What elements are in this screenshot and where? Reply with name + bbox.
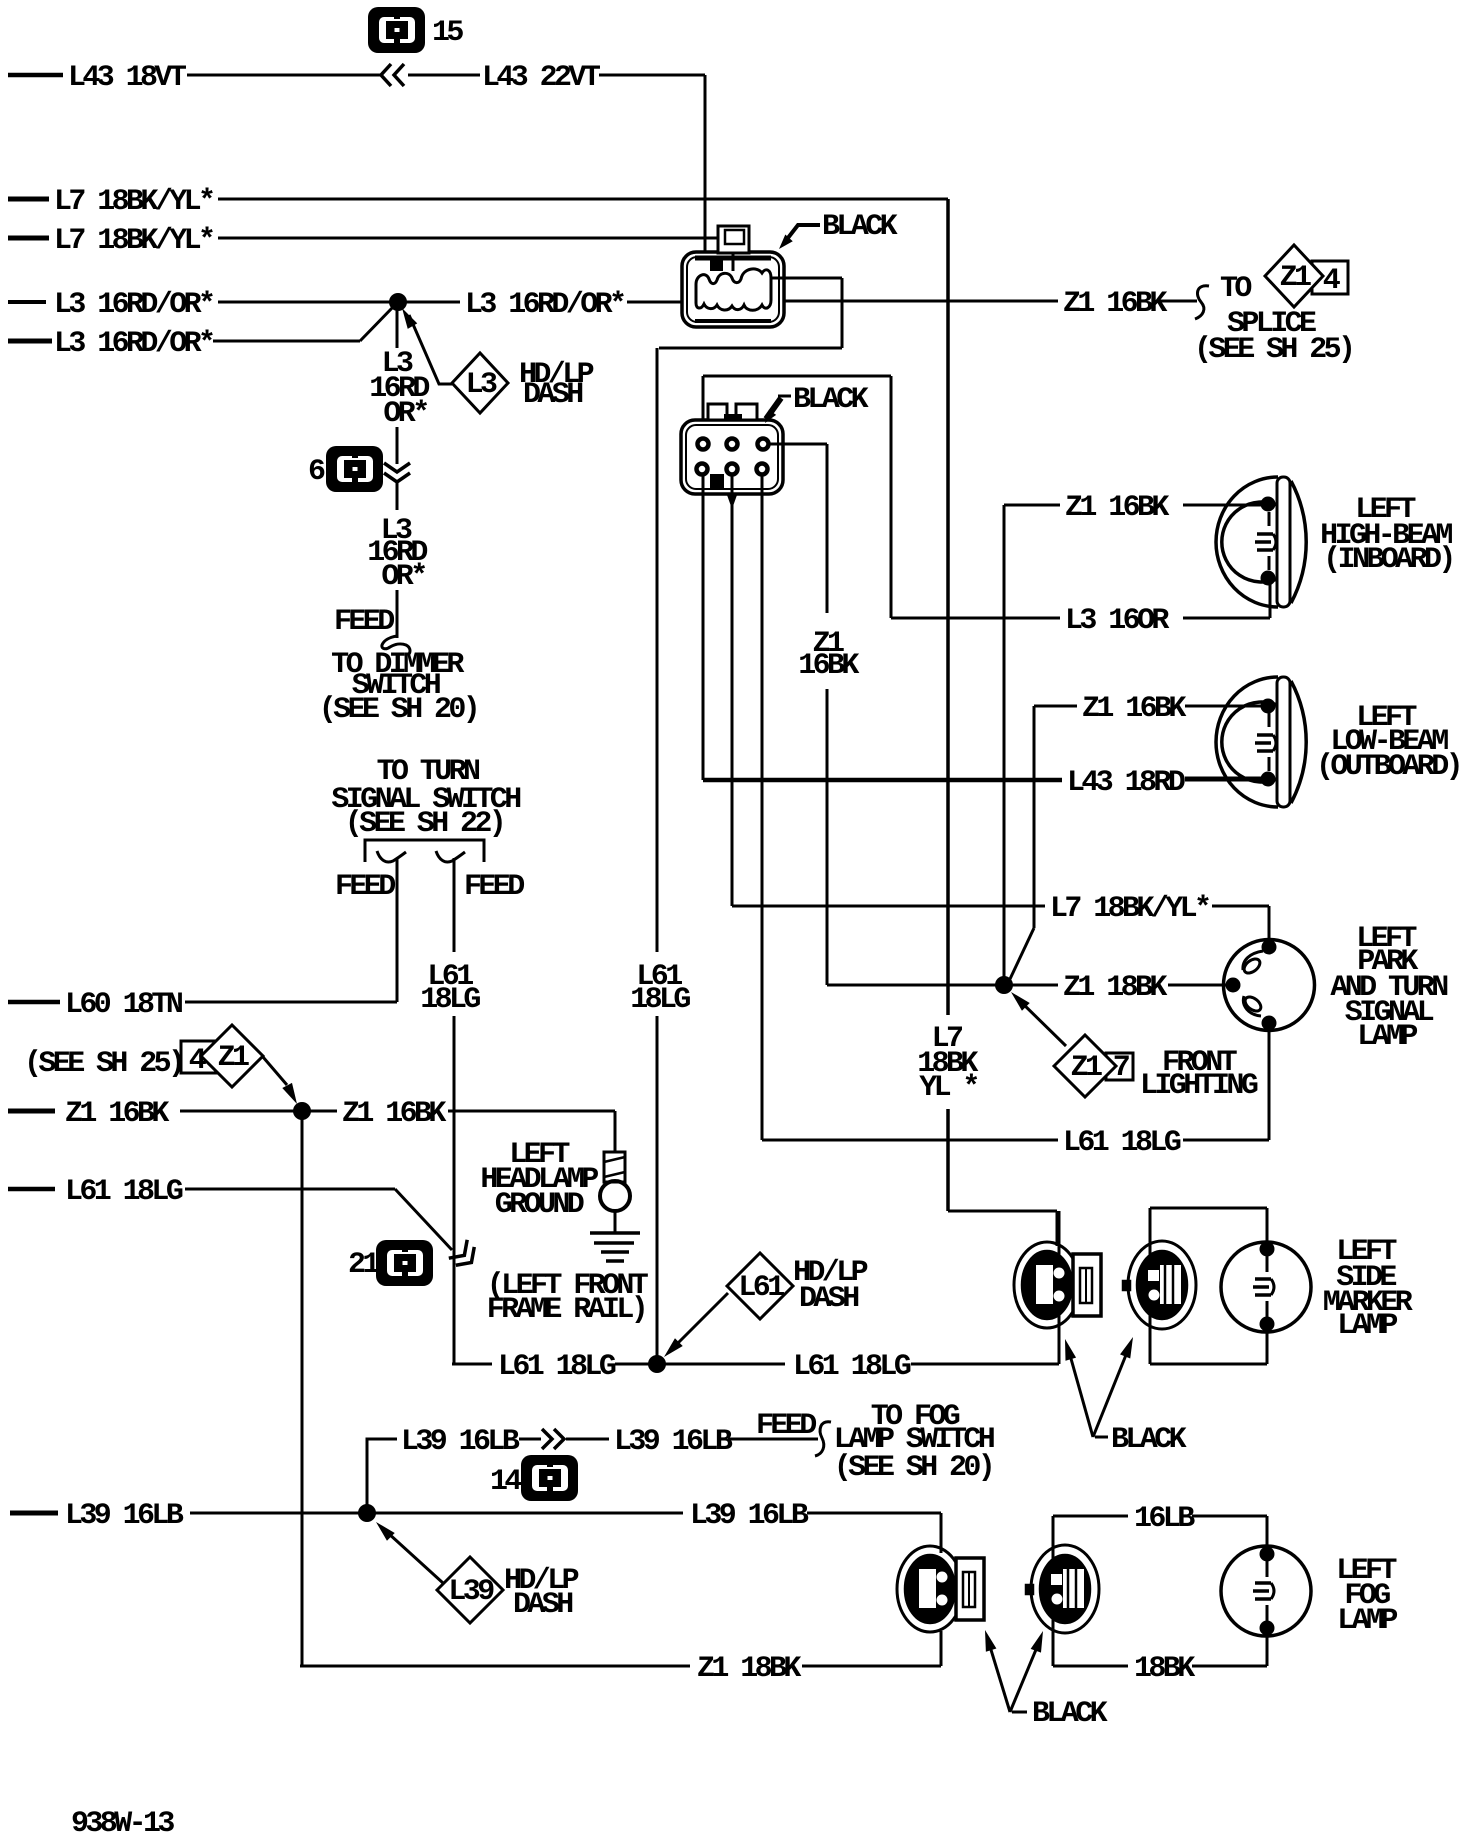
node Z1 splice xyxy=(293,1102,311,1120)
svg-text:L39 16LB: L39 16LB xyxy=(65,1499,184,1533)
wire diagonal into L3 splice xyxy=(360,306,394,341)
wire L61 18LG long vertical xyxy=(656,348,659,952)
wire L39 16LB main row xyxy=(10,1511,58,1516)
svg-text:BLACK: BLACK xyxy=(1111,1423,1187,1457)
grommet 15 xyxy=(368,7,425,53)
bracket squiggle xyxy=(1195,286,1209,319)
bulb left fog xyxy=(1221,1546,1311,1636)
lamp left high beam xyxy=(1216,477,1278,607)
connector symbol L3 HD/LP DASH xyxy=(452,353,508,413)
wire Z1 16BK from C2 pin3 xyxy=(768,443,827,446)
svg-text:BLACK: BLACK xyxy=(793,383,869,417)
svg-text:L39 16LB: L39 16LB xyxy=(401,1425,520,1459)
wire Z1 18BK to park lamp xyxy=(1012,984,1058,987)
label L3 16RD OR* below splice xyxy=(396,309,399,348)
svg-text:L3 16RD/OR*: L3 16RD/OR* xyxy=(54,288,213,322)
svg-text:DASH: DASH xyxy=(513,1588,572,1622)
wire L60 feed xyxy=(396,858,399,1002)
svg-text:14: 14 xyxy=(490,1465,522,1499)
svg-text:L39 16LB: L39 16LB xyxy=(614,1425,733,1459)
node L39 splice xyxy=(358,1504,376,1522)
svg-text:(SEE SH 25): (SEE SH 25) xyxy=(24,1047,182,1081)
svg-text:GROUND: GROUND xyxy=(495,1188,584,1222)
svg-text:OR*: OR* xyxy=(381,560,425,594)
wire L43 18VT xyxy=(8,73,63,78)
bracket squiggle fog xyxy=(815,1422,831,1456)
svg-text:L3 16OR: L3 16OR xyxy=(1065,604,1169,638)
wire diagonal to grommet 21 xyxy=(395,1189,452,1250)
arrow from L61 diamond to splice xyxy=(676,1293,728,1345)
svg-text:OR*: OR* xyxy=(383,397,427,431)
svg-text:TO: TO xyxy=(1220,272,1251,306)
arrow from L3 diamond to splice xyxy=(409,315,452,384)
wire Z1 16BK to low beam xyxy=(1033,706,1036,928)
wire L7 to side marker xyxy=(948,1210,1057,1213)
svg-text:Z1 16BK: Z1 16BK xyxy=(1065,491,1169,525)
svg-text:FEED: FEED xyxy=(335,870,395,904)
svg-text:L43 18VT: L43 18VT xyxy=(68,61,187,95)
svg-text:L43 22VT: L43 22VT xyxy=(482,61,601,95)
svg-text:Z1 16BK: Z1 16BK xyxy=(1063,287,1167,321)
connector arrow chevrons xyxy=(381,64,391,86)
svg-text:DASH: DASH xyxy=(799,1282,858,1316)
wire L3 down to grommet xyxy=(396,427,399,464)
arrow from Z1 diamond to splice xyxy=(263,1057,287,1085)
svg-text:(SEE SH 25): (SEE SH 25) xyxy=(1194,333,1352,367)
svg-text:Z1 16BK: Z1 16BK xyxy=(65,1097,169,1131)
svg-text:18LG: 18LG xyxy=(420,983,480,1017)
svg-text:(SEE SH 22): (SEE SH 22) xyxy=(345,807,503,841)
wire from C1 to L61 drop xyxy=(770,277,842,280)
svg-text:L61: L61 xyxy=(738,1271,784,1305)
svg-text:Z1: Z1 xyxy=(1280,261,1311,295)
wire L3 16RD/OR* row 1 xyxy=(8,300,46,304)
feed hook right xyxy=(436,851,465,862)
wire L61 18LG row xyxy=(8,1187,55,1192)
connector symbol Z1 7 FRONT LIGHTING xyxy=(1106,1053,1133,1080)
wire pin1 to high beam box xyxy=(702,376,705,438)
break chevron at grommet 21 xyxy=(449,1240,481,1272)
wire Z1 16BK to high beam xyxy=(1003,505,1006,977)
connector fog left xyxy=(897,1546,963,1632)
wire L3 16OR to high beam xyxy=(891,617,1060,620)
svg-text:16BK: 16BK xyxy=(798,649,859,683)
bracket to turn signal switch xyxy=(365,840,484,862)
svg-text:Z1: Z1 xyxy=(218,1041,249,1075)
svg-text:FRAME RAIL): FRAME RAIL) xyxy=(487,1293,645,1327)
node L3 splice xyxy=(389,293,407,311)
svg-text:L61 18LG: L61 18LG xyxy=(65,1175,183,1209)
lamp left fog box xyxy=(1053,1515,1128,1518)
wire L60 18TN xyxy=(8,1000,60,1005)
svg-text:18BK: 18BK xyxy=(1134,1652,1195,1686)
feed hook left xyxy=(377,851,406,862)
svg-text:LAMP: LAMP xyxy=(1337,1604,1397,1638)
C1 top tab xyxy=(718,226,749,253)
connector symbol L39 HD/LP DASH xyxy=(437,1557,503,1623)
lamp left park and turn signal xyxy=(1224,940,1315,1031)
node Z1 splice at front lighting xyxy=(995,976,1013,994)
svg-text:LIGHTING: LIGHTING xyxy=(1140,1069,1258,1103)
svg-text:(SEE SH 20): (SEE SH 20) xyxy=(834,1451,992,1485)
svg-text:Z1: Z1 xyxy=(1071,1051,1102,1085)
svg-text:L39: L39 xyxy=(448,1575,494,1609)
connector symbol 4 Z1 xyxy=(181,1041,216,1073)
svg-text:FEED: FEED xyxy=(756,1409,816,1443)
C2 pins xyxy=(698,439,709,450)
svg-text:L3 16RD/OR*: L3 16RD/OR* xyxy=(465,288,624,322)
bulb left side marker xyxy=(1221,1242,1311,1332)
wire Z1 down to bottom xyxy=(301,1111,304,1666)
connector side marker right xyxy=(1128,1241,1196,1329)
chevrons xyxy=(542,1429,552,1449)
svg-text:L61 18LG: L61 18LG xyxy=(498,1350,616,1384)
wire L61 from C2 pin6 xyxy=(761,475,764,1140)
svg-text:Z1 18BK: Z1 18BK xyxy=(1063,971,1167,1005)
wire L7 18BK/YL* row 2 xyxy=(8,236,49,241)
connector symbol Z1 4 xyxy=(1312,261,1348,294)
wire L61 18LG bottom row xyxy=(452,1363,492,1366)
svg-text:FEED: FEED xyxy=(334,605,394,639)
wire L61 up to side marker xyxy=(1058,1211,1061,1364)
svg-text:LAMP: LAMP xyxy=(1357,1020,1417,1054)
svg-text:L61 18LG: L61 18LG xyxy=(793,1350,911,1384)
connector symbol L61 HD/LP DASH xyxy=(727,1253,793,1319)
svg-text:LAMP: LAMP xyxy=(1337,1309,1397,1343)
wire L7 18BK/YL* row 1 xyxy=(8,197,49,202)
wire L3 feed stub xyxy=(396,590,399,638)
break chevron at grommet 6 xyxy=(384,463,410,472)
svg-text:(SEE SH 20): (SEE SH 20) xyxy=(319,693,477,727)
svg-text:YL *: YL * xyxy=(919,1071,977,1105)
wire Z1 16BK to splice xyxy=(784,300,1058,303)
svg-text:BLACK: BLACK xyxy=(822,210,898,244)
lamp left low beam xyxy=(1216,677,1278,807)
connector side marker left xyxy=(1014,1242,1080,1328)
svg-text:(INBOARD): (INBOARD) xyxy=(1323,543,1453,577)
wire L3 16RD/OR* row 2 xyxy=(8,339,52,344)
svg-text:DASH: DASH xyxy=(523,378,582,412)
svg-text:Z1 16BK: Z1 16BK xyxy=(1082,692,1186,726)
svg-text:L3: L3 xyxy=(466,368,497,402)
wire Z1 16BK row xyxy=(8,1109,55,1114)
svg-text:18LG: 18LG xyxy=(630,983,690,1017)
svg-text:L61 18LG: L61 18LG xyxy=(1063,1126,1181,1160)
svg-text:938W-13: 938W-13 xyxy=(71,1807,174,1838)
svg-text:L7 18BK/YL*: L7 18BK/YL* xyxy=(54,224,213,258)
node L61 splice xyxy=(648,1355,666,1373)
svg-text:L3 16RD/OR*: L3 16RD/OR* xyxy=(54,327,213,361)
wire L43 18RD from C2 pin4 xyxy=(702,475,705,780)
svg-text:(OUTBOARD): (OUTBOARD) xyxy=(1316,750,1460,784)
C2 top tab xyxy=(708,404,727,420)
svg-text:L60 18TN: L60 18TN xyxy=(65,988,183,1022)
svg-text:L7 18BK/YL*: L7 18BK/YL* xyxy=(54,185,213,219)
svg-text:BLACK: BLACK xyxy=(1032,1697,1108,1731)
lamp left side marker box xyxy=(1150,1207,1267,1210)
left headlamp ground xyxy=(614,1111,617,1152)
svg-text:L39 16LB: L39 16LB xyxy=(690,1499,809,1533)
wire L7 vertical to marker lamp xyxy=(946,199,950,1015)
wire L7 from C2 pin5 xyxy=(727,495,737,509)
wire L43 22VT xyxy=(408,74,480,77)
svg-text:L7 18BK/YL*: L7 18BK/YL* xyxy=(1050,892,1209,926)
svg-text:FEED: FEED xyxy=(464,870,524,904)
svg-text:L43 18RD: L43 18RD xyxy=(1067,766,1185,800)
wire L61 feed xyxy=(453,858,456,952)
arrow from L39 diamond to splice xyxy=(388,1533,443,1583)
svg-text:21: 21 xyxy=(348,1248,379,1282)
wire L39 16LB top row xyxy=(367,1439,397,1509)
svg-text:Z1 16BK: Z1 16BK xyxy=(342,1097,446,1131)
svg-text:15: 15 xyxy=(432,16,463,50)
svg-text:Z1 18BK: Z1 18BK xyxy=(697,1652,801,1686)
svg-text:16LB: 16LB xyxy=(1134,1502,1195,1536)
headlamp connector C1 black 2-way xyxy=(682,252,784,327)
connector fog right xyxy=(1031,1545,1099,1633)
arrow from Z1 diamond to splice xyxy=(1018,999,1066,1046)
wire Z1 18BK bottom row xyxy=(300,1665,690,1668)
